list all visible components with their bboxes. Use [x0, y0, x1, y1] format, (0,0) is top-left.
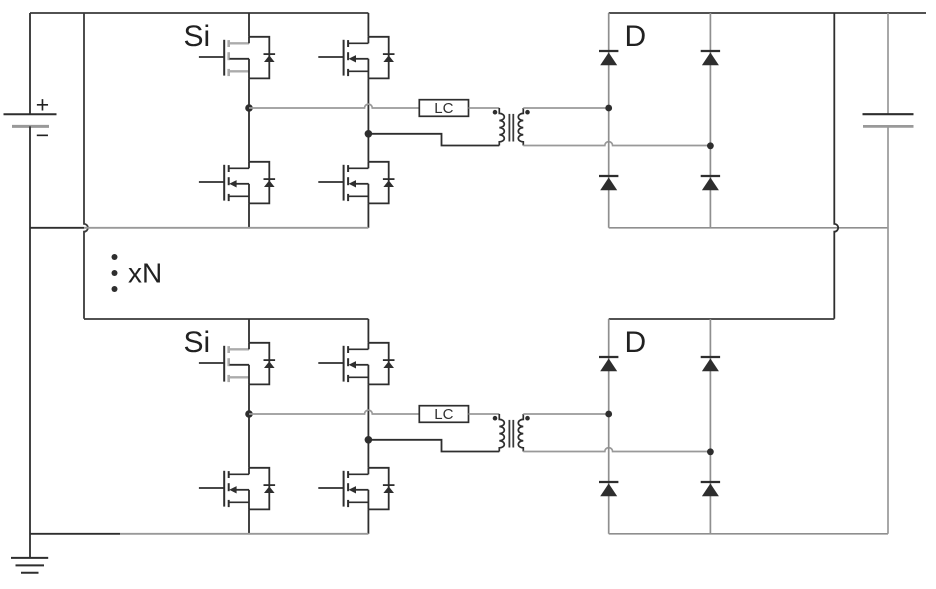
node Ba right phase node dot — [365, 130, 373, 138]
wire rectifier right leg module b — [709, 319, 711, 534]
transistor Q4a bottom-right Si MOSFET — [318, 162, 394, 204]
wire transformer Ta secondary top to rectifier node — [523, 107, 608, 109]
transformer secondary winding Ta — [518, 108, 523, 146]
wire DC+ bus upper segment (battery + to top rail) — [29, 13, 31, 114]
wire right leg lower (Q4b source to bottom rail) — [367, 509, 369, 533]
transformer secondary polarity dot Ta — [525, 110, 530, 115]
transistor Q1b top-left Si MOSFET (highlighted gray) — [199, 343, 275, 385]
battery V1 negative plate (gray) — [12, 125, 49, 128]
wire rectifier left leg module a — [608, 13, 610, 228]
wire top DC+ rail module a — [30, 12, 368, 14]
wire H-bridge left leg upper (drain Q1b) — [248, 319, 250, 343]
wire H-bridge left leg upper (drain Q1a) — [248, 13, 250, 37]
diode D2a upper-right rectifier diode — [701, 51, 720, 65]
wire node Ab to LC filter (hops right leg) — [249, 410, 419, 414]
transistor Q4b bottom-right Si MOSFET — [318, 468, 394, 510]
wire bottom DC- rail black part — [30, 533, 120, 535]
wire rectifier bottom rail module b to output bus — [609, 533, 888, 535]
node Da rectifier right mid node dot — [707, 142, 714, 149]
LC filter block LCb — [419, 406, 468, 424]
wire rectifier bottom rail module a to output bus — [609, 227, 888, 229]
svg-text:Si: Si — [184, 20, 211, 53]
transformer primary winding Tb — [499, 414, 504, 452]
svg-text:+: + — [36, 92, 49, 118]
wire left leg mid (Q1a source to Q3a drain) — [248, 78, 250, 161]
transistor Q2b top-right Si MOSFET — [318, 343, 394, 385]
wire H-bridge right leg upper (drain Q2b) — [367, 319, 369, 343]
wire transformer Ta secondary bottom to rectifier (hops left leg) — [523, 142, 710, 146]
wire rectifier left leg module b — [608, 319, 610, 534]
diode D4a lower-right rectifier diode — [701, 176, 720, 190]
ground symbol — [11, 558, 48, 573]
wire output bus upper segment — [887, 13, 889, 114]
wire H-bridge right leg upper (drain Q2a) — [367, 13, 369, 37]
wire H-bridge bottom rail gray part module a — [84, 227, 368, 229]
wire rectifier top DC rail module b — [609, 318, 835, 320]
transformer primary polarity dot Ta — [493, 110, 498, 115]
wire H-bridge bottom rail module b — [120, 533, 368, 535]
svg-text:LC: LC — [434, 406, 453, 423]
capacitor C1 top plate — [863, 113, 914, 115]
node Aa left phase node dot — [245, 104, 253, 112]
wire right leg mid (Q2a source to Q4a drain) — [367, 78, 369, 161]
node Cb rectifier left mid node dot — [605, 411, 612, 418]
wire series link between module outputs (hops gray rail) — [834, 13, 838, 319]
diode D2b upper-right rectifier diode — [701, 357, 720, 371]
wire output bus lower segment — [887, 126, 889, 533]
battery V1 positive plate — [4, 113, 57, 115]
transformer secondary winding Tb — [518, 414, 523, 452]
transformer secondary polarity dot Tb — [525, 416, 530, 421]
svg-text:xN: xN — [128, 258, 162, 289]
wire node Ba to transformer primary return — [368, 134, 499, 146]
LC filter block LCa — [419, 100, 468, 118]
svg-text:Si: Si — [184, 326, 211, 359]
wire DC- return rail for top module — [30, 227, 84, 229]
wire node Aa to LC filter (hops right leg) — [249, 104, 419, 108]
transistor Q2a top-right Si MOSFET — [318, 37, 394, 79]
transformer primary winding Ta — [499, 108, 504, 146]
diode D4b lower-right rectifier diode — [701, 482, 720, 496]
transistor Q1a top-left Si MOSFET (highlighted gray) — [199, 37, 275, 79]
node Ab left phase node dot — [245, 410, 253, 418]
transistor Q3a bottom-left Si MOSFET — [199, 162, 275, 204]
wire transformer Tb secondary top to rectifier node — [523, 413, 608, 415]
wire left leg lower (Q3a source to bottom rail) — [248, 203, 250, 227]
svg-text:−: − — [36, 122, 49, 148]
wire LCa output to transformer primary — [469, 107, 500, 109]
wire top DC+ rail module b — [84, 318, 368, 320]
capacitor C1 bottom plate (gray) — [863, 125, 914, 128]
transistor Q3b bottom-left Si MOSFET — [199, 468, 275, 510]
transformer core Tb — [509, 420, 513, 448]
svg-text:D: D — [625, 20, 647, 53]
wire DC- bus lower segment (battery - down to ground) — [29, 126, 31, 558]
diode D1a upper-left rectifier diode — [599, 51, 618, 65]
wire transformer Tb secondary bottom to rectifier (hops left leg) — [523, 448, 710, 452]
diode D3a lower-left rectifier diode — [599, 176, 618, 190]
label xN repetition dots — [112, 254, 118, 292]
node Ca rectifier left mid node dot — [605, 105, 612, 112]
svg-text:LC: LC — [434, 100, 453, 117]
node Db rectifier right mid node dot — [707, 448, 714, 455]
wire left leg lower (Q3b source to bottom rail) — [248, 509, 250, 533]
node Bb right phase node dot — [365, 436, 373, 444]
wire right leg mid (Q2b source to Q4b drain) — [367, 384, 369, 467]
transformer primary polarity dot Tb — [493, 416, 498, 421]
wire rectifier right leg module a — [709, 13, 711, 228]
wire DC+ feeder to bottom module (hops return rail) — [84, 13, 88, 319]
wire node Bb to transformer primary return — [368, 440, 499, 452]
diode D3b lower-left rectifier diode — [599, 482, 618, 496]
diode D1b upper-left rectifier diode — [599, 357, 618, 371]
wire right leg lower (Q4a source to bottom rail) — [367, 203, 369, 227]
wire left leg mid (Q1b source to Q3b drain) — [248, 384, 250, 467]
transformer core Ta — [509, 114, 513, 142]
svg-text:D: D — [625, 326, 647, 359]
wire rectifier top DC rail module a — [609, 12, 926, 14]
wire LCb output to transformer primary — [469, 413, 500, 415]
